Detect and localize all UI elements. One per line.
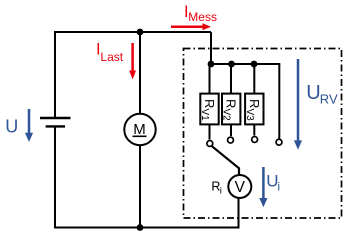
switch contact 2 [228, 137, 234, 143]
svg-text:V2: V2 [221, 109, 232, 122]
svg-text:V3: V3 [244, 109, 255, 122]
wire: drop to Rv1 [209, 64, 211, 94]
svg-text:Last: Last [100, 50, 123, 64]
resistor Rv1 [199, 94, 219, 125]
switch contact 3 [252, 137, 258, 143]
svg-text:i: i [277, 180, 280, 194]
label Ri [211, 180, 222, 197]
switch wiper wire [212, 146, 239, 175]
resistor Rv3 [244, 94, 264, 125]
svg-text:M: M [133, 121, 146, 138]
wire: Rv3 to contact [253, 124, 255, 135]
wire: top horizontal [55, 31, 211, 33]
voltmeter V [228, 175, 251, 198]
node: rail junction 1 [208, 61, 215, 68]
wire: Rv1 to contact [209, 124, 211, 139]
node: rail junction 3 [251, 61, 258, 68]
wire: left vertical upper (to battery) [54, 31, 56, 117]
current arrow I_Last [96, 40, 136, 79]
wire: drop to Rv2 [230, 64, 232, 94]
motor M [124, 114, 155, 145]
wire: distribution rail [211, 63, 280, 65]
svg-text:Mess: Mess [188, 10, 217, 24]
svg-text:R: R [202, 99, 217, 108]
voltage arrow U_i [259, 167, 280, 207]
voltage arrow U_RV [294, 59, 338, 150]
wire: right vertical into box [210, 32, 212, 64]
wire: Rv2 to contact [230, 124, 232, 136]
wire: motor branch lower [139, 146, 141, 228]
wire: drop to Rv3 [253, 64, 255, 94]
svg-text:V: V [235, 179, 246, 196]
wire: left vertical lower (battery to bottom) [54, 126, 56, 228]
switch contact 4 [276, 139, 282, 145]
battery source U [40, 118, 71, 126]
wire: bypass branch [278, 64, 280, 139]
node: rail junction 2 [228, 61, 235, 68]
svg-text:U: U [5, 117, 18, 137]
switch contact 1 [207, 141, 213, 147]
dash-dot enclosure (measuring instrument boundary) [184, 49, 342, 219]
wire: voltmeter to bottom [238, 198, 240, 229]
svg-text:i: i [220, 186, 222, 197]
node: top junction [137, 29, 144, 36]
wire: bottom horizontal [54, 227, 239, 229]
svg-text:RV: RV [320, 92, 338, 107]
node: bottom junction [137, 224, 144, 231]
voltage arrow U (source) [5, 109, 33, 142]
svg-text:U: U [306, 82, 320, 104]
wire: motor branch upper [139, 32, 141, 113]
svg-text:R: R [224, 99, 239, 108]
resistor Rv2 [221, 94, 241, 125]
svg-text:R: R [247, 99, 262, 108]
svg-text:V1: V1 [199, 109, 210, 122]
current arrow I_Mess [171, 3, 217, 30]
